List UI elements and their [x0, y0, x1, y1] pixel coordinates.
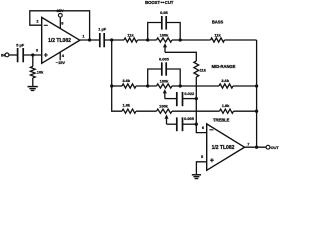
wire: summing bus to U2 pin 6 — [196, 77, 206, 133]
junction dot bass pot left — [146, 38, 149, 41]
resistor R5 11k bass wiper to summing bus — [194, 61, 207, 77]
wire: R6 to mid pot — [136, 85, 157, 87]
U2 inverting input minus sign — [209, 129, 213, 131]
wire: R8 to right bus — [233, 85, 257, 87]
junction dot bus mid — [255, 84, 258, 87]
svg-text:0.005: 0.005 — [184, 116, 195, 121]
BOOST-CUT label — [145, 0, 174, 5]
svg-text:1.8k: 1.8k — [222, 103, 230, 108]
U2 non-inverting input plus sign — [210, 158, 214, 162]
svg-text:100k: 100k — [160, 78, 169, 83]
junction dot bus treble — [255, 110, 258, 113]
resistor R4 11k bass right — [211, 33, 225, 43]
capacitor C1 5uF — [16, 42, 24, 62]
svg-text:5 µF: 5 µF — [16, 42, 24, 47]
svg-text:15V: 15V — [57, 8, 64, 13]
svg-text:1/2 TL082: 1/2 TL082 — [48, 38, 71, 44]
ground for U2 — [192, 175, 201, 179]
wire: U2 output to OUT — [245, 146, 267, 148]
potentiometer R7 100k mid — [157, 78, 181, 88]
junction dot C6 bus — [195, 123, 198, 126]
svg-text:11k: 11k — [200, 67, 207, 72]
-15V supply pin 4 — [56, 52, 66, 65]
wire: C1 to U1 pin 3 — [23, 54, 42, 56]
junction dot mid pot right — [179, 84, 182, 87]
svg-text:11k: 11k — [127, 32, 134, 37]
svg-text:7: 7 — [247, 141, 249, 146]
resistor R8 3.6k mid right — [219, 78, 233, 88]
svg-text:0.022: 0.022 — [184, 91, 195, 96]
wire: R4 to right bus — [225, 39, 257, 41]
pin 5 wire — [196, 162, 206, 174]
treble pot wiper arrow — [165, 114, 169, 124]
resistor R9 1.8k treble left — [122, 103, 136, 114]
capacitor C2 1uF — [98, 26, 106, 47]
U1 non-inverting input plus sign — [44, 53, 48, 57]
svg-text:100k: 100k — [159, 103, 168, 108]
capacitor C4 0.005 bridging mid pot — [148, 57, 181, 86]
svg-text:0.005: 0.005 — [159, 57, 170, 62]
U1 inverting input minus sign — [44, 24, 48, 26]
svg-text:1/2 TL082: 1/2 TL082 — [212, 145, 235, 151]
svg-text:−15V: −15V — [56, 60, 66, 65]
svg-text:BOOST: BOOST — [145, 0, 160, 5]
wire: R2 to bass pot — [138, 39, 157, 41]
bass pot wiper arrow — [163, 43, 167, 52]
wire: C2 to node A — [104, 39, 124, 41]
svg-text:3.6k: 3.6k — [123, 78, 131, 83]
capacitor C3 0.05 bridging bass pot — [148, 10, 181, 40]
IN terminal — [1, 52, 9, 57]
svg-text:BASS: BASS — [212, 19, 224, 24]
junction dot bass pot right — [179, 38, 182, 41]
svg-text:TREBLE: TREBLE — [213, 118, 230, 123]
wire: U1 feedback loop from output to pin 2 — [30, 11, 90, 40]
svg-text:100k: 100k — [160, 33, 169, 38]
svg-text:1 µF: 1 µF — [98, 26, 106, 31]
capacitor C5 0.022 mid wiper to bus — [165, 91, 197, 106]
mid pot wiper arrow — [163, 89, 167, 99]
node A junction dot — [110, 38, 113, 41]
wire: right feedback bus — [256, 40, 258, 147]
svg-text:MID-RANGE: MID-RANGE — [212, 64, 236, 69]
wire: node A to R6 — [112, 85, 122, 87]
capacitor C6 0.005 treble wiper to bus — [167, 116, 197, 131]
junction dot bus output — [255, 146, 258, 149]
svg-text:1.8k: 1.8k — [123, 103, 131, 108]
svg-text:11k: 11k — [214, 33, 221, 38]
svg-text:OUT: OUT — [271, 145, 280, 150]
resistor R2 11k bass left — [124, 32, 138, 42]
wire: treble pot to R11 — [172, 110, 220, 112]
svg-text:CUT: CUT — [165, 0, 174, 5]
svg-text:3.6k: 3.6k — [221, 78, 229, 83]
wire: R11 to right bus — [234, 110, 257, 112]
15V supply terminal pin 8 — [57, 8, 65, 28]
resistor R6 3.6k mid left — [122, 78, 136, 88]
junction dot node A mid — [110, 84, 113, 87]
op-amp U1 1/2 TL082 triangle — [42, 17, 80, 63]
svg-text:10k: 10k — [37, 69, 44, 74]
resistor R1 10k — [30, 55, 44, 86]
wire: bass pot to R4 — [180, 39, 210, 41]
wire: bass wiper to R5 — [165, 52, 196, 61]
ground for R1 — [28, 87, 38, 91]
op-amp U2 1/2 TL082 triangle — [207, 124, 245, 170]
svg-text:IN: IN — [1, 52, 5, 57]
junction dot U1 output — [88, 38, 91, 41]
resistor R11 1.8k treble right — [220, 103, 234, 113]
potentiometer R3 100k bass — [157, 33, 181, 43]
OUT terminal — [266, 145, 279, 150]
wire: R9 to treble pot — [136, 110, 157, 112]
wire: IN to C1 — [9, 54, 18, 56]
potentiometer R10 100k treble — [157, 103, 173, 113]
wire: node A vertical feed to mid and treble — [112, 40, 122, 111]
wire: mid pot to R8 — [180, 85, 219, 87]
junction dot pin3 node — [31, 53, 34, 56]
junction dot mid pot left — [146, 84, 149, 87]
wire: U1 output to C2 — [80, 39, 100, 41]
junction dot C5 bus — [195, 97, 198, 100]
svg-text:0.05: 0.05 — [160, 10, 168, 15]
